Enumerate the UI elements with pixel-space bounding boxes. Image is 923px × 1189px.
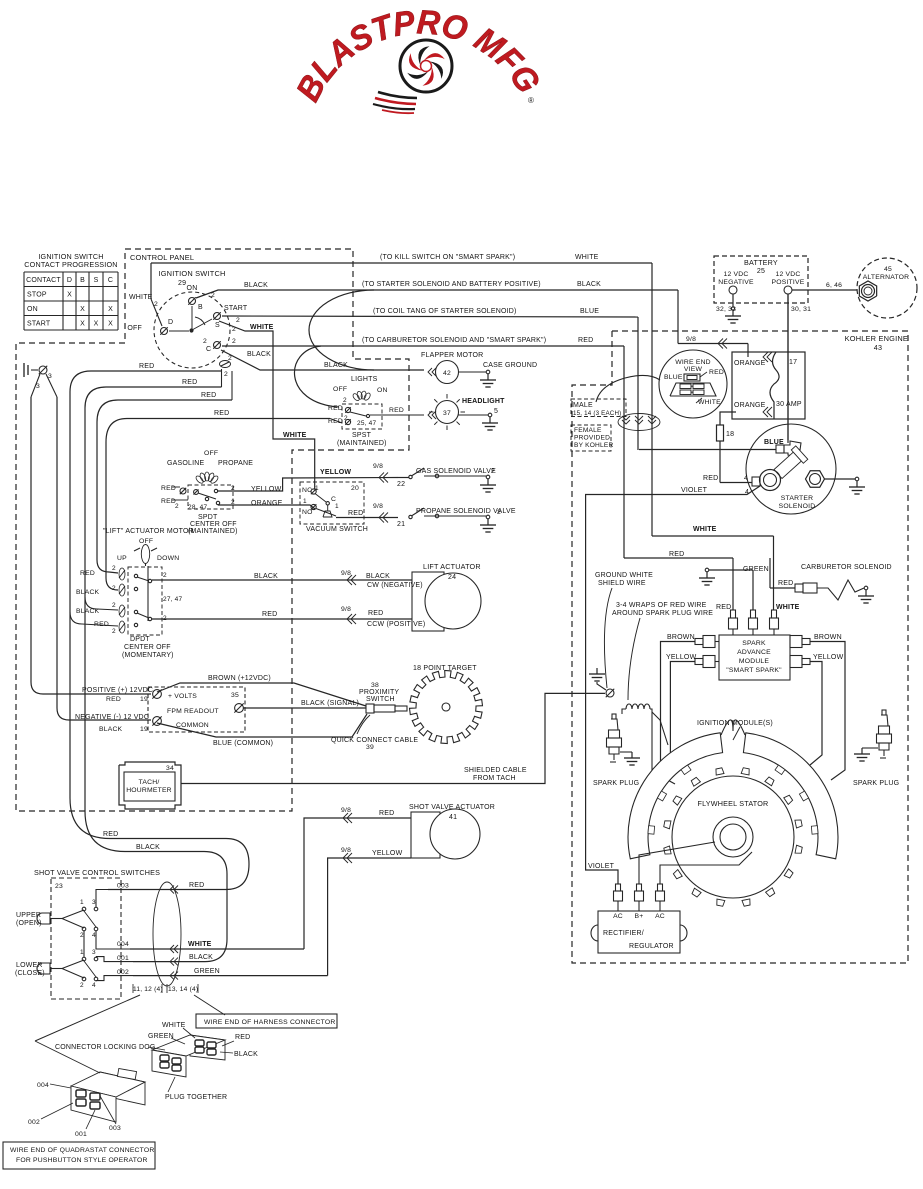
- svg-text:BLUE (COMMON): BLUE (COMMON): [213, 740, 273, 747]
- svg-text:RED: RED: [389, 407, 404, 414]
- svg-text:22: 22: [397, 481, 405, 488]
- svg-text:START: START: [224, 305, 248, 312]
- svg-text:C: C: [108, 277, 113, 284]
- svg-text:3: 3: [92, 949, 96, 956]
- svg-text:RED: RED: [139, 363, 154, 370]
- svg-text:3-4 WRAPS OF RED WIRE: 3-4 WRAPS OF RED WIRE: [616, 602, 707, 609]
- svg-text:SWITCH: SWITCH: [366, 696, 395, 703]
- svg-text:ORANGE: ORANGE: [734, 402, 766, 409]
- svg-text:NO: NO: [302, 509, 313, 516]
- svg-text:12 VDC: 12 VDC: [724, 271, 749, 278]
- svg-text:30 AMP: 30 AMP: [776, 401, 802, 408]
- svg-text:ALTERNATOR: ALTERNATOR: [863, 274, 910, 281]
- svg-text:4: 4: [744, 475, 748, 482]
- svg-text:15, 14 (3 EACH): 15, 14 (3 EACH): [573, 410, 621, 417]
- svg-text:WIRE END: WIRE END: [675, 359, 711, 366]
- svg-text:FLYWHEEL STATOR: FLYWHEEL STATOR: [698, 799, 769, 808]
- svg-text:2: 2: [343, 397, 347, 404]
- svg-text:"SMART SPARK": "SMART SPARK": [726, 667, 782, 674]
- svg-text:SHOT VALVE CONTROL SWITCHES: SHOT VALVE CONTROL SWITCHES: [34, 868, 160, 877]
- svg-text:2: 2: [112, 602, 116, 609]
- svg-text:BY KOHLER: BY KOHLER: [574, 442, 613, 449]
- svg-text:SPARK PLUG: SPARK PLUG: [853, 780, 899, 787]
- svg-text:2: 2: [491, 468, 495, 475]
- svg-text:BLACK: BLACK: [366, 573, 390, 580]
- svg-text:CCW (POSITIVE): CCW (POSITIVE): [367, 621, 425, 628]
- svg-text:BLACK: BLACK: [324, 362, 348, 369]
- svg-text:BATTERY: BATTERY: [744, 258, 778, 267]
- svg-text:39: 39: [366, 744, 374, 751]
- svg-text:BLACK: BLACK: [136, 844, 160, 851]
- svg-text:RED: RED: [368, 610, 383, 617]
- svg-text:ORANGE: ORANGE: [251, 500, 283, 507]
- svg-text:2: 2: [344, 415, 348, 422]
- svg-text:11, 12 (4): 11, 12 (4): [133, 986, 163, 993]
- svg-text:(MAINTAINED): (MAINTAINED): [188, 528, 238, 535]
- svg-text:IGNITION SWITCH: IGNITION SWITCH: [158, 269, 225, 278]
- svg-text:KOHLER ENGINE: KOHLER ENGINE: [845, 334, 908, 343]
- svg-text:WIRE END OF QUADRASTAT CONNECT: WIRE END OF QUADRASTAT CONNECTOR: [10, 1147, 154, 1154]
- svg-text:OFF: OFF: [127, 325, 142, 332]
- svg-text:42: 42: [443, 370, 451, 377]
- svg-text:RED: RED: [103, 831, 118, 838]
- svg-text:ORANGE: ORANGE: [734, 360, 766, 367]
- svg-text:ON: ON: [27, 306, 38, 313]
- svg-text:AC: AC: [655, 913, 665, 920]
- svg-text:2: 2: [203, 338, 207, 345]
- svg-text:STARTER: STARTER: [781, 495, 814, 502]
- svg-text:003: 003: [117, 883, 129, 890]
- svg-text:3: 3: [92, 899, 96, 906]
- svg-text:C: C: [331, 496, 336, 503]
- svg-text:OFF: OFF: [333, 386, 347, 393]
- svg-text:MALE: MALE: [573, 402, 593, 409]
- svg-text:B: B: [198, 304, 203, 311]
- svg-text:BLUE: BLUE: [580, 308, 599, 315]
- svg-text:BROWN (+12VDC): BROWN (+12VDC): [208, 675, 271, 682]
- svg-text:(MAINTAINED): (MAINTAINED): [337, 440, 387, 447]
- svg-text:2: 2: [211, 292, 215, 299]
- svg-text:"LIFT" ACTUATOR MOTOR: "LIFT" ACTUATOR MOTOR: [103, 528, 194, 535]
- svg-text:DOWN: DOWN: [157, 555, 179, 562]
- svg-text:AROUND SPARK PLUG WIRE: AROUND SPARK PLUG WIRE: [612, 610, 713, 617]
- svg-text:RECTIFIER/: RECTIFIER/: [603, 930, 644, 937]
- svg-text:LIFT ACTUATOR: LIFT ACTUATOR: [423, 562, 481, 571]
- svg-text:(TO KILL SWITCH ON "SMART SPAR: (TO KILL SWITCH ON "SMART SPARK"): [380, 254, 515, 261]
- svg-text:25, 47: 25, 47: [357, 420, 376, 427]
- svg-text:SPARK PLUG: SPARK PLUG: [593, 780, 639, 787]
- svg-text:BLACK: BLACK: [244, 282, 268, 289]
- svg-text:004: 004: [117, 941, 129, 948]
- svg-text:CASE GROUND: CASE GROUND: [483, 362, 537, 369]
- svg-text:WHITE: WHITE: [129, 294, 153, 301]
- svg-text:CW (NEGATIVE): CW (NEGATIVE): [367, 582, 423, 589]
- svg-text:WHITE: WHITE: [693, 526, 717, 533]
- svg-text:LIGHTS: LIGHTS: [351, 376, 378, 383]
- svg-text:ON: ON: [187, 285, 198, 292]
- svg-text:MODULE: MODULE: [739, 658, 770, 665]
- svg-text:28, 47: 28, 47: [188, 504, 207, 511]
- svg-text:4: 4: [92, 982, 96, 989]
- svg-text:X: X: [94, 320, 99, 327]
- svg-text:GROUND WHITE: GROUND WHITE: [595, 572, 653, 579]
- svg-text:STOP: STOP: [27, 291, 47, 298]
- svg-text:WHITE: WHITE: [283, 432, 307, 439]
- svg-text:21: 21: [397, 521, 405, 528]
- svg-text:AC: AC: [613, 913, 623, 920]
- svg-text:IGNITION MODULE(S): IGNITION MODULE(S): [697, 720, 773, 727]
- svg-text:1: 1: [303, 498, 307, 505]
- svg-text:29: 29: [178, 280, 186, 287]
- svg-text:2: 2: [497, 509, 501, 516]
- svg-text:5: 5: [494, 408, 498, 415]
- svg-text:43: 43: [874, 343, 882, 352]
- svg-text:S: S: [94, 277, 99, 284]
- svg-text:FPM READOUT: FPM READOUT: [167, 708, 219, 715]
- svg-text:SPST: SPST: [352, 432, 372, 439]
- svg-text:RED: RED: [709, 369, 724, 376]
- svg-text:2: 2: [232, 338, 236, 345]
- svg-text:41: 41: [449, 814, 457, 821]
- svg-text:23: 23: [55, 883, 63, 890]
- svg-text:CENTER OFF: CENTER OFF: [124, 644, 171, 651]
- svg-text:WHITE: WHITE: [162, 1022, 186, 1029]
- svg-text:GREEN: GREEN: [194, 968, 220, 975]
- svg-text:VIOLET: VIOLET: [681, 487, 708, 494]
- svg-text:PROPANE: PROPANE: [218, 460, 253, 467]
- svg-text:9/8: 9/8: [341, 570, 351, 577]
- svg-text:2: 2: [236, 317, 240, 324]
- svg-text:OFF: OFF: [139, 538, 153, 545]
- svg-text:24: 24: [448, 574, 456, 581]
- svg-text:D: D: [67, 277, 72, 284]
- svg-text:RED: RED: [161, 485, 176, 492]
- svg-text:6, 46: 6, 46: [826, 282, 842, 289]
- svg-text:DPDT: DPDT: [130, 636, 150, 643]
- svg-text:RED: RED: [235, 1034, 250, 1041]
- svg-text:25: 25: [757, 268, 765, 275]
- svg-text:S: S: [215, 322, 220, 329]
- svg-text:B+: B+: [635, 913, 644, 920]
- svg-text:VACUUM SWITCH: VACUUM SWITCH: [306, 526, 368, 533]
- svg-text:GREEN: GREEN: [148, 1033, 174, 1040]
- svg-text:37: 37: [443, 410, 451, 417]
- svg-text:19: 19: [140, 696, 148, 703]
- svg-text:SHIELDED CABLE: SHIELDED CABLE: [464, 767, 527, 774]
- svg-text:BLUE: BLUE: [664, 374, 683, 381]
- svg-text:YELLOW: YELLOW: [666, 654, 697, 661]
- svg-text:2: 2: [112, 565, 116, 572]
- svg-text:9/8: 9/8: [341, 847, 351, 854]
- svg-text:1: 1: [335, 503, 339, 510]
- svg-text:X: X: [108, 306, 113, 313]
- svg-text:SPDT: SPDT: [198, 514, 218, 521]
- svg-text:2: 2: [224, 371, 228, 378]
- svg-text:LOWER: LOWER: [16, 962, 43, 969]
- svg-text:(TO STARTER SOLENOID AND BATTE: (TO STARTER SOLENOID AND BATTERY POSITIV…: [362, 281, 541, 288]
- svg-text:PLUG TOGETHER: PLUG TOGETHER: [165, 1094, 227, 1101]
- svg-text:27, 47: 27, 47: [163, 596, 182, 603]
- svg-text:18 POINT TARGET: 18 POINT TARGET: [413, 665, 477, 672]
- svg-text:VIEW: VIEW: [684, 366, 703, 373]
- svg-text:1: 1: [80, 899, 84, 906]
- svg-text:START: START: [27, 320, 51, 327]
- svg-text:2: 2: [112, 628, 116, 635]
- svg-text:2: 2: [112, 585, 116, 592]
- svg-text:WHITE: WHITE: [776, 604, 800, 611]
- svg-text:POSITIVE: POSITIVE: [772, 279, 805, 286]
- svg-text:YELLOW: YELLOW: [372, 850, 403, 857]
- svg-text:9/8: 9/8: [373, 503, 383, 510]
- svg-text:002: 002: [117, 969, 129, 976]
- svg-text:(TO COIL TANG OF STARTER SOLEN: (TO COIL TANG OF STARTER SOLENOID): [373, 308, 517, 315]
- svg-text:CONTACT PROGRESSION: CONTACT PROGRESSION: [24, 260, 117, 269]
- svg-text:RED: RED: [669, 551, 684, 558]
- svg-text:TACH/: TACH/: [139, 779, 160, 786]
- svg-text:RED: RED: [214, 410, 229, 417]
- svg-text:WHITE: WHITE: [698, 399, 721, 406]
- svg-text:QUICK CONNECT CABLE: QUICK CONNECT CABLE: [331, 737, 418, 744]
- svg-text:CONTACT: CONTACT: [26, 277, 61, 284]
- svg-text:BLACK: BLACK: [99, 726, 123, 733]
- svg-text:(TO CARBURETOR SOLENOID AND "S: (TO CARBURETOR SOLENOID AND "SMART SPARK…: [362, 337, 546, 344]
- svg-text:RED: RED: [379, 810, 394, 817]
- svg-text:13, 14 (4): 13, 14 (4): [168, 986, 198, 993]
- svg-text:BROWN: BROWN: [667, 634, 695, 641]
- svg-text:38: 38: [371, 682, 379, 689]
- svg-text:FEMALE: FEMALE: [574, 427, 602, 434]
- svg-text:30, 31: 30, 31: [791, 306, 811, 313]
- svg-text:CONTROL PANEL: CONTROL PANEL: [130, 253, 194, 262]
- svg-text:WIRE END OF HARNESS CONNECTOR: WIRE END OF HARNESS CONNECTOR: [204, 1019, 335, 1026]
- svg-text:RED: RED: [328, 405, 343, 412]
- svg-text:001: 001: [117, 955, 129, 962]
- svg-text:ADVANCE: ADVANCE: [737, 649, 771, 656]
- svg-text:CARBURETOR SOLENOID: CARBURETOR SOLENOID: [801, 564, 892, 571]
- svg-text:HOURMETER: HOURMETER: [126, 787, 172, 794]
- svg-text:20: 20: [351, 485, 359, 492]
- svg-text:18: 18: [726, 431, 734, 438]
- svg-text:YELLOW: YELLOW: [813, 654, 844, 661]
- svg-text:REGULATOR: REGULATOR: [629, 943, 674, 950]
- svg-text:X: X: [80, 306, 85, 313]
- svg-text:BLACK: BLACK: [234, 1051, 258, 1058]
- svg-text:2: 2: [228, 355, 232, 362]
- svg-text:WHITE: WHITE: [250, 324, 274, 331]
- svg-text:WHITE: WHITE: [575, 254, 599, 261]
- svg-text:CONNECTOR LOCKING DOG: CONNECTOR LOCKING DOG: [55, 1044, 156, 1051]
- svg-text:SPARK: SPARK: [742, 640, 766, 647]
- svg-text:D: D: [168, 319, 173, 326]
- svg-text:9/8: 9/8: [341, 606, 351, 613]
- svg-text:FLAPPER MOTOR: FLAPPER MOTOR: [421, 352, 483, 359]
- svg-text:+ VOLTS: + VOLTS: [168, 693, 197, 700]
- svg-text:SOLENOID: SOLENOID: [779, 503, 816, 510]
- svg-text:BLACK: BLACK: [247, 351, 271, 358]
- svg-text:GAS SOLENOID VALVE: GAS SOLENOID VALVE: [416, 468, 496, 475]
- svg-text:19: 19: [140, 726, 148, 733]
- svg-text:RED: RED: [262, 611, 277, 618]
- svg-text:X: X: [80, 320, 85, 327]
- svg-text:003: 003: [109, 1125, 121, 1132]
- svg-text:RED: RED: [703, 475, 718, 482]
- svg-text:C: C: [206, 346, 211, 353]
- svg-text:OFF: OFF: [204, 450, 218, 457]
- svg-text:X: X: [108, 320, 113, 327]
- svg-text:VIOLET: VIOLET: [588, 863, 615, 870]
- svg-text:1: 1: [80, 949, 84, 956]
- svg-text:004: 004: [37, 1082, 49, 1089]
- svg-text:2: 2: [175, 503, 179, 510]
- svg-text:BLACK: BLACK: [254, 573, 278, 580]
- svg-text:12 VDC: 12 VDC: [776, 271, 801, 278]
- svg-text:BLACK: BLACK: [76, 589, 100, 596]
- svg-text:POSITIVE (+) 12VDC: POSITIVE (+) 12VDC: [82, 687, 153, 694]
- svg-text:YELLOW: YELLOW: [251, 486, 282, 493]
- svg-text:GASOLINE: GASOLINE: [167, 460, 205, 467]
- svg-text:17: 17: [789, 359, 797, 366]
- svg-text:001: 001: [75, 1131, 87, 1138]
- svg-text:RED: RED: [778, 580, 793, 587]
- svg-text:NEGATIVE: NEGATIVE: [718, 279, 754, 286]
- svg-text:RED: RED: [578, 337, 593, 344]
- svg-text:2: 2: [80, 932, 84, 939]
- svg-text:9/8: 9/8: [686, 336, 696, 343]
- svg-text:4: 4: [92, 932, 96, 939]
- svg-text:RED: RED: [348, 510, 363, 517]
- svg-text:SHIELD WIRE: SHIELD WIRE: [598, 580, 646, 587]
- svg-text:UP: UP: [117, 555, 127, 562]
- svg-text:®: ®: [528, 96, 534, 105]
- svg-text:RED: RED: [80, 570, 95, 577]
- svg-text:YELLOW: YELLOW: [320, 469, 351, 476]
- svg-text:FOR PUSHBUTTON STYLE OPERATOR: FOR PUSHBUTTON STYLE OPERATOR: [16, 1157, 148, 1164]
- svg-text:WHITE: WHITE: [188, 941, 212, 948]
- svg-text:X: X: [67, 291, 72, 298]
- svg-text:9/8: 9/8: [341, 807, 351, 814]
- svg-text:35: 35: [231, 692, 239, 699]
- svg-text:BLACK: BLACK: [189, 954, 213, 961]
- svg-text:FROM TACH: FROM TACH: [473, 775, 516, 782]
- svg-text:BLACK (SIGNAL): BLACK (SIGNAL): [301, 700, 359, 707]
- svg-text:45: 45: [884, 266, 892, 273]
- svg-text:ON: ON: [377, 387, 388, 394]
- svg-text:B: B: [80, 277, 85, 284]
- svg-text:002: 002: [28, 1119, 40, 1126]
- svg-text:RED: RED: [182, 379, 197, 386]
- svg-text:BROWN: BROWN: [814, 634, 842, 641]
- svg-text:CENTER OFF: CENTER OFF: [190, 521, 237, 528]
- svg-text:RED: RED: [161, 498, 176, 505]
- svg-text:RED: RED: [189, 882, 204, 889]
- svg-text:9/8: 9/8: [373, 463, 383, 470]
- svg-text:RED: RED: [106, 696, 121, 703]
- svg-text:RED: RED: [716, 604, 731, 611]
- svg-text:COMMON: COMMON: [176, 722, 209, 729]
- svg-text:BLACK: BLACK: [577, 281, 601, 288]
- svg-text:PROXIMITY: PROXIMITY: [359, 689, 399, 696]
- svg-text:HEADLIGHT: HEADLIGHT: [462, 398, 505, 405]
- svg-text:2: 2: [163, 572, 167, 579]
- svg-text:RED: RED: [201, 392, 216, 399]
- svg-text:(MOMENTARY): (MOMENTARY): [122, 652, 174, 659]
- svg-text:34: 34: [166, 765, 174, 772]
- svg-text:PROVIDED: PROVIDED: [574, 435, 610, 442]
- svg-text:2: 2: [80, 982, 84, 989]
